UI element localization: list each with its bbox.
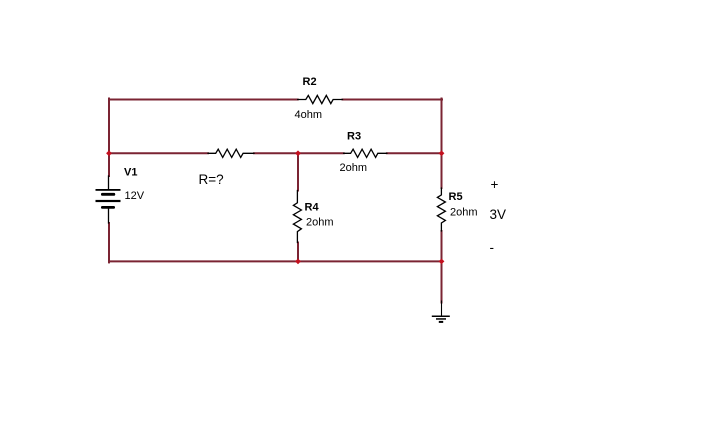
svg-text:R=?: R=? (199, 172, 224, 187)
svg-text:4ohm: 4ohm (295, 109, 323, 121)
svg-text:2ohm: 2ohm (306, 217, 334, 229)
svg-text:R2: R2 (303, 76, 317, 88)
svg-text:V1: V1 (124, 167, 137, 179)
svg-text:2ohm: 2ohm (450, 207, 478, 219)
svg-text:-: - (490, 240, 495, 255)
svg-text:12V: 12V (125, 190, 145, 202)
svg-text:R5: R5 (449, 191, 463, 203)
svg-text:3V: 3V (490, 207, 507, 222)
svg-text:2ohm: 2ohm (340, 162, 368, 174)
svg-text:R3: R3 (347, 131, 361, 143)
svg-text:R4: R4 (305, 202, 320, 214)
svg-text:+: + (491, 177, 499, 192)
